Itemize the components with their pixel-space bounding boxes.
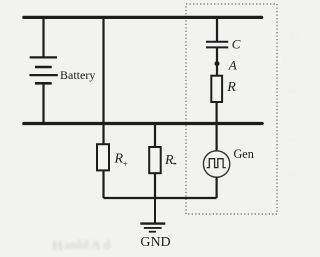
node A [215, 61, 220, 66]
capacitor C [206, 42, 228, 48]
resistor R- [149, 147, 161, 173]
svg-text:A: A [228, 57, 237, 72]
wire R to Gen [216, 102, 218, 151]
svg-text:: ..: : .. [284, 132, 293, 142]
svg-text:Gen: Gen [234, 147, 254, 161]
wire Gen bottom stub [216, 177, 218, 198]
svg-text:anbl A d: anbl A d [64, 237, 111, 252]
square wave symbol [207, 159, 226, 168]
wire ground stub [154, 198, 156, 223]
resistor R [211, 76, 222, 102]
svg-text:Battery: Battery [60, 68, 95, 82]
svg-text:R: R [226, 80, 236, 95]
svg-text:GND: GND [140, 235, 170, 250]
wire capacitor top stub [216, 17, 218, 41]
battery Battery [29, 57, 57, 83]
ground GND [140, 224, 165, 232]
top bus wire [24, 16, 262, 19]
svg-text:.. :: .. : [286, 84, 295, 94]
svg-text:.: ..: .: .. [288, 30, 300, 40]
ghost marks right margin [284, 30, 300, 177]
wire R- top stub [154, 124, 156, 148]
middle bus wire [24, 122, 262, 125]
svg-text:H: H [52, 239, 63, 254]
generator Gen [203, 151, 229, 177]
svg-text:: .: : . [284, 54, 291, 64]
svg-text:R: R [164, 153, 174, 168]
resistor R+ [97, 144, 109, 170]
svg-text:C: C [232, 37, 241, 52]
svg-text:.: :: .: : [286, 167, 296, 177]
wire battery bottom stub [42, 83, 44, 123]
wire vertical branch through buses to R+ [102, 17, 104, 145]
wire R- bottom stub [154, 173, 156, 198]
svg-text:+: + [123, 159, 128, 169]
wire bottom horizontal [104, 197, 217, 199]
dotted enclosure box [186, 4, 277, 214]
wire capacitor to resistor R [216, 47, 218, 76]
wire R+ bottom stub [102, 170, 104, 198]
ghost bleed-through text bottom left [52, 237, 111, 254]
wire battery top stub [42, 17, 44, 57]
